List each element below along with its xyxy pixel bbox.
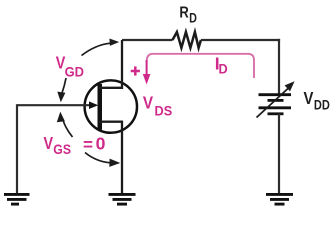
battery VDD plate short bottom xyxy=(268,112,284,115)
svg-text:0: 0 xyxy=(96,134,106,154)
JFET Q1 circle xyxy=(85,80,137,132)
gate arrowhead xyxy=(89,101,98,109)
pink ID bracket with down arrow xyxy=(143,54,254,85)
wire left rail xyxy=(16,104,18,194)
svg-text:DD: DD xyxy=(314,97,330,113)
wire right rail upper xyxy=(278,39,280,94)
plus sign xyxy=(131,66,140,75)
battery VDD plate short xyxy=(268,99,284,102)
arrow VGD to gate wire xyxy=(57,78,66,102)
wire top right segment xyxy=(201,39,280,41)
variable source diagonal arrow xyxy=(257,81,295,117)
battery VDD plate long top xyxy=(259,93,292,96)
ground left xyxy=(4,194,30,204)
svg-text:V: V xyxy=(44,133,54,153)
arrow VGD to drain corner xyxy=(82,39,120,56)
gate wire xyxy=(17,104,92,106)
svg-text:V: V xyxy=(143,93,153,113)
svg-text:GS: GS xyxy=(53,141,71,157)
source lead inside xyxy=(99,121,123,194)
svg-text:R: R xyxy=(179,5,189,22)
svg-text:DS: DS xyxy=(155,102,173,118)
battery VDD plate long xyxy=(259,106,292,109)
JFET channel bar xyxy=(98,84,103,130)
svg-text:V: V xyxy=(304,88,314,108)
svg-text:=: = xyxy=(83,134,93,154)
ground right xyxy=(266,194,293,204)
ground middle xyxy=(109,194,136,204)
svg-text:GD: GD xyxy=(65,63,84,79)
svg-text:D: D xyxy=(189,10,197,25)
arrow VGS to gate wire xyxy=(57,112,73,137)
wire right rail lower xyxy=(278,114,280,194)
drain lead inside xyxy=(99,40,123,89)
arrow VGS to source wire xyxy=(85,153,120,167)
wire top: drain node to resistor to right rail xyxy=(122,39,173,41)
resistor RD zigzag xyxy=(173,32,201,48)
svg-text:D: D xyxy=(219,61,228,77)
